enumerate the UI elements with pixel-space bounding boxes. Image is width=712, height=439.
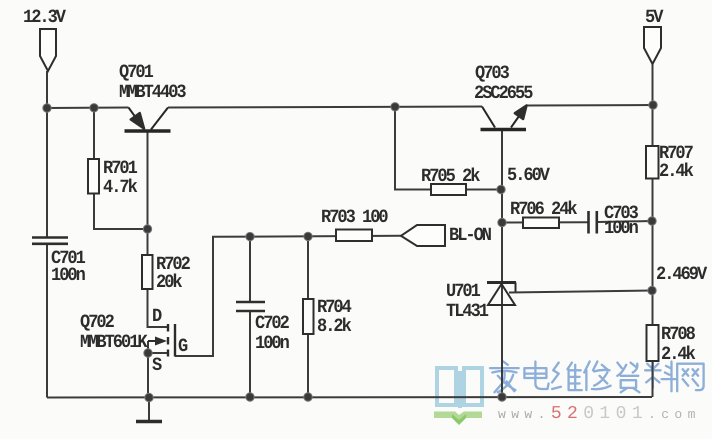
svg-text:R701: R701 <box>103 159 138 180</box>
svg-text:U701: U701 <box>446 282 481 303</box>
svg-text:12.3V: 12.3V <box>23 8 67 29</box>
svg-text:Q702: Q702 <box>80 313 115 334</box>
svg-text:5V: 5V <box>645 8 664 29</box>
svg-text:Q701: Q701 <box>119 63 154 84</box>
svg-text:TL431: TL431 <box>446 302 489 323</box>
svg-text:R703 100: R703 100 <box>321 208 388 229</box>
svg-text:Q703: Q703 <box>475 64 510 85</box>
svg-text:100n: 100n <box>51 266 86 287</box>
svg-text:MMBT4403: MMBT4403 <box>119 83 186 104</box>
svg-text:100n: 100n <box>255 334 290 355</box>
svg-text:20k: 20k <box>156 273 182 294</box>
svg-text:2.469V: 2.469V <box>656 265 708 286</box>
svg-text:MMBT601K: MMBT601K <box>80 333 148 354</box>
svg-text:4.7k: 4.7k <box>103 178 138 199</box>
svg-text:BL-ON: BL-ON <box>449 226 492 247</box>
svg-text:R706 24k: R706 24k <box>510 200 577 221</box>
svg-text:R704: R704 <box>317 298 352 319</box>
svg-text:C702: C702 <box>255 314 290 335</box>
svg-text:R705 2k: R705 2k <box>421 167 480 188</box>
svg-text:5.60V: 5.60V <box>507 166 551 187</box>
svg-text:2.4k: 2.4k <box>661 345 696 366</box>
svg-text:R708: R708 <box>661 325 696 346</box>
svg-text:100n: 100n <box>604 219 639 240</box>
svg-text:2.4k: 2.4k <box>659 162 694 183</box>
svg-text:www.520101.com: www.520101.com <box>498 404 701 424</box>
svg-text:8.2k: 8.2k <box>317 317 352 338</box>
svg-text:2SC2655: 2SC2655 <box>474 84 533 105</box>
